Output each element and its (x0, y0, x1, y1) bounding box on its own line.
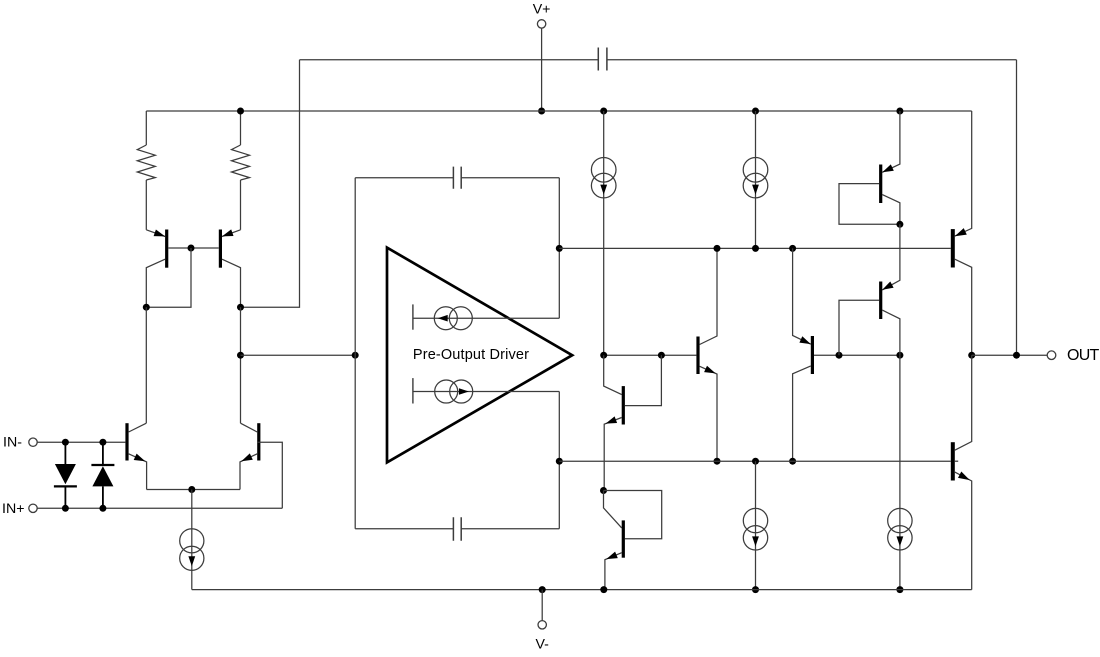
svg-text:V-: V- (535, 637, 549, 652)
svg-text:IN+: IN+ (2, 501, 24, 517)
current source I5 (lower right) (888, 508, 912, 550)
diode D1 (clamp, pointing down) (54, 442, 77, 508)
junction Q6 emitter / V- rail (600, 586, 607, 593)
node right mirror collector (237, 304, 244, 311)
junction mid / P2 base tie (836, 352, 843, 359)
wire V- rail (192, 589, 972, 591)
node left mirror collector (143, 304, 150, 311)
junction rail / I2 (600, 108, 607, 115)
wire OUT line (972, 354, 1047, 356)
transistor Q9 (output top PNP) (951, 111, 972, 355)
wire tail link (147, 489, 240, 491)
wire comp line right drop to OUT (1016, 60, 1018, 355)
junction rail / P1 emitter (896, 108, 903, 115)
junction Q7 emitter / lower bias (714, 458, 721, 465)
wire R2 to Q2 emitter (240, 180, 242, 230)
junction mid/I2 node (600, 352, 607, 359)
current source I1 (input tail) (180, 490, 204, 590)
svg-text:OUT: OUT (1067, 347, 1100, 364)
transistor Q3 (input NPN, inverting) (125, 423, 146, 489)
capacitor C1 (compensation, top) (598, 48, 607, 71)
junction P1 collector/base tie (896, 221, 903, 228)
junction Q8 emitter / upper bias (789, 245, 796, 252)
wire driver box top edge (355, 177, 559, 179)
resistor R1 (137, 145, 155, 180)
terminal V+ (537, 20, 545, 111)
current source I6 (driver upper, arrow left) (413, 304, 559, 329)
wire base-to-collector tie (diode connection of Q1) (146, 248, 191, 307)
wire lower bias line (559, 460, 951, 462)
wire left rail drop to R1 (145, 111, 147, 145)
junction D2 cathode (99, 439, 106, 446)
capacitor C2 (driver top) (453, 167, 461, 189)
junction base link (188, 245, 195, 252)
junction V- on rail (539, 586, 546, 593)
wire IN- line (37, 441, 126, 443)
terminal IN+ (29, 504, 37, 512)
wire IN+ line (37, 507, 282, 509)
transistor Q2 (PNP mirror) (219, 229, 241, 307)
transistor P1 (diode-connected PNP) (839, 111, 900, 224)
resistor R2 (232, 145, 250, 180)
junction tail (188, 486, 195, 493)
junction I3 / upper bias (752, 245, 759, 252)
wire driver box left side (354, 178, 356, 529)
terminal IN- (29, 438, 37, 446)
transistor Q10 (output bottom NPN) (951, 355, 972, 589)
terminal V- (538, 590, 546, 629)
current source I2 (left top) (591, 111, 616, 355)
junction comp line / OUT (1013, 352, 1020, 359)
wire top compensation line (right half) (607, 59, 1017, 61)
transistor Q7 (NPN driver) (696, 248, 717, 461)
wire driver box bottom edge (355, 528, 559, 530)
svg-text:Pre-Output Driver: Pre-Output Driver (413, 347, 529, 363)
svg-text:IN-: IN- (3, 435, 22, 451)
junction driver box / upper bias line (556, 245, 563, 252)
current source I4 (lower mid) (743, 461, 767, 589)
capacitor C3 (driver bottom) (453, 517, 461, 541)
wire right collector column to mid node (240, 307, 242, 423)
wire right rail drop to R2 (240, 111, 242, 145)
wire left collector column down to Q3 (145, 307, 147, 423)
terminal OUT (1047, 351, 1056, 360)
transistor Q8 (PNP driver) (793, 248, 814, 461)
junction mid / P2 collector (896, 352, 903, 359)
junction D2 anode (99, 505, 106, 512)
wire Q1-Q2 base link (168, 247, 219, 249)
transistor Q6 (diode-connected NPN) (604, 491, 662, 590)
transistor Q5 (diode-connected NPN) (604, 355, 662, 490)
wire mid line (driver side) (604, 354, 697, 356)
wire top compensation line (left half) (300, 59, 599, 61)
junction driver box / lower bias line (556, 458, 563, 465)
junction Q8 collector / lower bias (789, 458, 796, 465)
junction I5 / V- rail (896, 586, 903, 593)
wire mid line (output mirror side) (814, 354, 900, 356)
wire P2 collector to I5 (899, 355, 901, 589)
transistor P2 (diode-connected PNP) (839, 224, 900, 355)
junction D1 anode (62, 439, 69, 446)
junction lower bias / I4 (752, 458, 759, 465)
junction I4 / V- rail (752, 586, 759, 593)
junction mid node left (237, 352, 244, 359)
junction D1 cathode (62, 505, 69, 512)
wire V+ rail (146, 110, 971, 112)
junction Q9 collector / OUT (968, 352, 975, 359)
svg-text:V+: V+ (533, 1, 551, 17)
transistor Q4 (input NPN, non-inverting) (240, 423, 282, 508)
wire driver box right upper (558, 178, 560, 319)
junction V+ on rail (538, 108, 545, 115)
current source I7 (driver lower, arrow right) (413, 378, 559, 403)
junction driver input (352, 352, 359, 359)
current source I3 (right top) (743, 111, 768, 248)
junction Q5 emitter / Q6 node (600, 487, 607, 494)
op-amp U1 (Pre-Output Driver triangle) (387, 248, 572, 463)
junction mid/Q5 base node (658, 352, 665, 359)
wire comp feedback vertical to mirror output node (241, 60, 300, 307)
wire driver box right lower (558, 392, 560, 529)
junction rail/R2 (237, 108, 244, 115)
transistor Q1 (PNP mirror, diode-connected) (146, 230, 168, 308)
wire mid node to driver input (241, 354, 356, 356)
wire R1 to Q1 emitter (145, 180, 147, 230)
wire upper bias line (559, 247, 951, 249)
junction Q7 collector / upper bias (714, 245, 721, 252)
diode D2 (clamp, pointing up) (91, 442, 114, 508)
junction rail / I3 (752, 108, 759, 115)
